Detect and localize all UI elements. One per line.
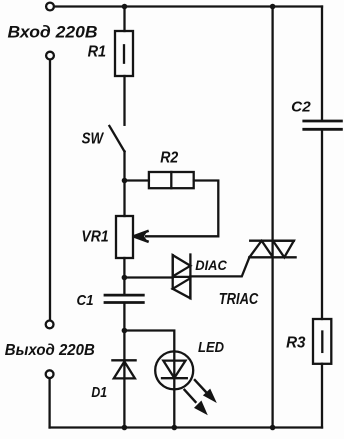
wire: R1 to switch xyxy=(123,76,125,125)
svg-text:DIAC: DIAC xyxy=(195,257,227,273)
resistor R3 xyxy=(313,319,331,364)
label: VR1 xyxy=(81,229,108,246)
terminal: output top xyxy=(46,321,54,329)
svg-text:Выход 220В: Выход 220В xyxy=(5,342,95,359)
svg-text:C2: C2 xyxy=(291,98,311,115)
label: SW xyxy=(82,131,105,148)
label: DIAC xyxy=(195,257,227,273)
wire: node2 to D1 xyxy=(123,331,125,361)
junction: D1 / bottom rail xyxy=(122,425,128,431)
wire: bottom rail xyxy=(50,426,322,428)
label: R3 xyxy=(286,334,305,351)
junction: top rail / TRIAC branch xyxy=(270,4,276,10)
wire: switch to junction xyxy=(123,152,125,181)
junction: TRIAC branch / bottom rail xyxy=(270,425,276,431)
wire: C2 branch from top rail xyxy=(321,7,323,121)
label: R1 xyxy=(88,44,107,61)
LED arrow 1 xyxy=(195,380,217,403)
wire: C2 to R3 xyxy=(321,131,323,320)
wire: node to C1 xyxy=(123,278,125,294)
label: D1 xyxy=(91,384,107,401)
label: LED xyxy=(198,339,224,356)
wire: VR1 bottom to node xyxy=(123,258,125,278)
wire: C1 to node2 xyxy=(123,304,125,331)
terminal: input bottom xyxy=(46,52,54,60)
svg-text:TRIAC: TRIAC xyxy=(219,291,259,308)
wire: top rail to R1 xyxy=(123,7,125,32)
wire: TRIAC branch vertical xyxy=(271,7,273,428)
switch SW xyxy=(109,126,124,152)
wire: DIAC to TRIAC gate xyxy=(190,257,249,276)
junction: VR1 / C1 / DIAC node xyxy=(122,275,128,281)
wire: junction to R2 left xyxy=(125,179,149,181)
terminal: output bottom xyxy=(46,370,54,378)
wire: node to DIAC xyxy=(124,276,172,278)
junction: LED / bottom rail xyxy=(172,425,178,431)
terminal: input top xyxy=(46,3,54,11)
label: Выход 220В xyxy=(5,342,95,359)
svg-text:VR1: VR1 xyxy=(81,229,108,246)
svg-text:LED: LED xyxy=(198,339,224,356)
potentiometer VR1 xyxy=(116,216,133,258)
wire: left column (input bottom terminal to output top terminal) xyxy=(49,60,51,321)
svg-text:R1: R1 xyxy=(88,44,107,61)
label: R2 xyxy=(160,149,178,166)
LED arrow 2 xyxy=(185,390,208,416)
junction: C1 / D1 / LED node xyxy=(122,328,128,334)
wire: through DIAC xyxy=(173,276,191,278)
wire: junction to VR1 top xyxy=(123,181,125,217)
label: Вход 220В xyxy=(8,22,98,41)
svg-text:SW: SW xyxy=(82,131,105,148)
svg-text:R3: R3 xyxy=(286,334,305,351)
resistor R1 xyxy=(115,31,133,76)
svg-text:R2: R2 xyxy=(160,149,178,166)
svg-text:D1: D1 xyxy=(91,384,107,401)
wire: node2 to LED branch xyxy=(124,331,174,352)
label: C2 xyxy=(291,98,311,115)
wire: output bottom terminal to bottom rail xyxy=(48,378,50,427)
wire: through LED xyxy=(173,352,175,390)
wire: LED to bottom rail xyxy=(173,389,175,427)
label: TRIAC xyxy=(219,291,259,308)
diac DIAC xyxy=(173,255,191,299)
svg-text:C1: C1 xyxy=(77,292,94,309)
junction: top rail / R1 branch xyxy=(122,4,128,10)
junction: switch / R2 / VR1 node xyxy=(122,178,128,184)
wire: R3 to bottom rail xyxy=(321,364,323,428)
svg-text:Вход 220В: Вход 220В xyxy=(8,22,98,41)
capacitor C2 xyxy=(304,121,342,129)
wire: top rail xyxy=(54,5,322,7)
wire: R2 right to VR1 wiper xyxy=(146,181,218,237)
triac TRIAC xyxy=(249,241,295,258)
label: C1 xyxy=(77,292,94,309)
wire: D1 to bottom rail xyxy=(123,378,125,427)
diode D1 xyxy=(112,360,135,378)
resistor R2 xyxy=(149,172,194,188)
capacitor C1 xyxy=(105,295,143,302)
LED xyxy=(155,351,193,389)
wiper arrowhead of VR1 xyxy=(134,231,149,242)
wire: through D1 xyxy=(123,360,125,378)
